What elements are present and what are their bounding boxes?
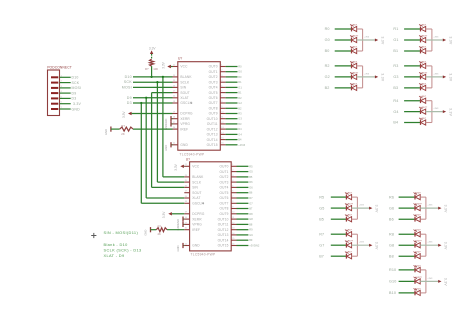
svg-text:TLC5940-PWP: TLC5940-PWP (191, 253, 216, 257)
svg-text:3.3V: 3.3V (375, 205, 379, 213)
svg-text:3.3V: 3.3V (174, 163, 178, 170)
svg-text:OUT3: OUT3 (219, 180, 228, 184)
svg-text:OUT10: OUT10 (218, 217, 229, 221)
svg-text:3.3V: 3.3V (73, 102, 81, 106)
svg-text:GND: GND (72, 107, 81, 111)
svg-text:MOSI: MOSI (122, 85, 132, 89)
svg-text:B5: B5 (319, 217, 324, 221)
svg-text:OUT5: OUT5 (209, 91, 218, 95)
svg-text:R?: R? (145, 67, 149, 71)
svg-text:G2: G2 (325, 75, 330, 79)
svg-text:G5: G5 (319, 206, 324, 210)
svg-text:LED?: LED? (352, 61, 358, 63)
svg-text:D3: D3 (127, 101, 132, 105)
svg-text:B8: B8 (389, 254, 394, 258)
svg-text:LED?: LED? (415, 215, 421, 217)
svg-text:LED??: LED?? (415, 277, 422, 279)
svg-text:3.3V: 3.3V (375, 242, 379, 250)
svg-text:PODCONNECT: PODCONNECT (47, 66, 72, 70)
svg-text:XLAT: XLAT (192, 196, 200, 200)
svg-text:+3V3: +3V3 (427, 242, 433, 244)
svg-text:LED?: LED? (421, 61, 427, 63)
svg-text:R10: R10 (389, 268, 396, 272)
svg-text:2K: 2K (158, 232, 162, 236)
svg-text:SIN: SIN (192, 186, 198, 190)
svg-text:LED?: LED? (421, 24, 427, 26)
svg-text:D3: D3 (72, 97, 77, 101)
svg-text:3.3V: 3.3V (448, 108, 452, 116)
svg-text:OUT1: OUT1 (219, 170, 228, 174)
svg-text:R8: R8 (389, 232, 394, 236)
svg-text:OUT6: OUT6 (209, 96, 218, 100)
svg-text:D10: D10 (72, 76, 79, 80)
svg-text:LED??: LED?? (352, 72, 359, 74)
svg-text:LED?: LED? (421, 118, 427, 120)
svg-text:DCPRG: DCPRG (192, 212, 205, 216)
svg-text:MOSI: MOSI (72, 86, 82, 90)
svg-text:OUT12: OUT12 (218, 228, 229, 232)
svg-text:3.3V: 3.3V (122, 111, 126, 118)
svg-text:OUT14: OUT14 (207, 138, 218, 142)
svg-text:IREF: IREF (180, 127, 188, 131)
svg-text:B10: B10 (389, 291, 396, 295)
svg-text:LED??: LED?? (347, 204, 354, 206)
svg-text:BLANK: BLANK (192, 175, 204, 179)
svg-text:LED?: LED? (421, 46, 427, 48)
svg-text:LED?: LED? (421, 96, 427, 98)
svg-text:LED??: LED?? (347, 241, 354, 243)
svg-text:+3V3: +3V3 (359, 205, 365, 207)
svg-text:LED?: LED? (421, 83, 427, 85)
svg-text:U?: U? (186, 157, 190, 161)
svg-text:DCPRG: DCPRG (180, 112, 193, 116)
svg-text:Blank - D10: Blank - D10 (104, 242, 129, 247)
svg-text:OUT13: OUT13 (218, 233, 229, 237)
svg-text:OUT2: OUT2 (209, 75, 218, 79)
svg-text:R3: R3 (393, 64, 398, 68)
svg-text:3.3V: 3.3V (444, 205, 448, 213)
svg-text:VCC: VCC (192, 165, 200, 169)
svg-text:R4: R4 (393, 99, 398, 103)
svg-text:3.3V: 3.3V (380, 73, 384, 81)
svg-text:OUT12: OUT12 (207, 127, 218, 131)
svg-text:OUT6: OUT6 (219, 196, 228, 200)
svg-text:3.3V: 3.3V (448, 37, 452, 45)
svg-text:OUT1: OUT1 (209, 70, 218, 74)
svg-text:LED?: LED? (415, 230, 421, 232)
svg-text:SOUT: SOUT (192, 191, 201, 195)
svg-text:R?: R? (121, 124, 125, 128)
svg-text:2K: 2K (121, 132, 125, 136)
svg-text:3.3V: 3.3V (162, 211, 166, 218)
svg-text:LED?: LED? (347, 252, 353, 254)
svg-text:OUT5: OUT5 (219, 191, 228, 195)
svg-text:+3V3: +3V3 (359, 242, 365, 244)
svg-text:3.3V: 3.3V (380, 37, 384, 45)
svg-text:SCK: SCK (124, 80, 132, 84)
svg-text:+3V3: +3V3 (433, 73, 439, 75)
svg-text:LED?: LED? (347, 215, 353, 217)
svg-text:OUT13: OUT13 (207, 133, 218, 137)
svg-text:R5: R5 (319, 195, 324, 199)
svg-text:SCLK (SCK) - D13: SCLK (SCK) - D13 (104, 248, 142, 253)
svg-text:OUT9: OUT9 (209, 112, 218, 116)
svg-text:B1: B1 (393, 49, 398, 53)
svg-text:3.3V: 3.3V (149, 46, 156, 50)
svg-text:LED?: LED? (352, 46, 358, 48)
svg-text:LED?: LED? (415, 252, 421, 254)
svg-text:B4: B4 (393, 121, 398, 125)
svg-text:3.3V: 3.3V (162, 61, 166, 68)
svg-text:SOUT: SOUT (180, 91, 189, 95)
svg-text:LED??: LED?? (421, 107, 428, 109)
svg-text:LED?: LED? (352, 83, 358, 85)
svg-text:R0: R0 (325, 27, 330, 31)
svg-text:GND: GND (192, 244, 200, 248)
svg-text:VCC: VCC (180, 65, 188, 69)
svg-text:LED?: LED? (415, 288, 421, 290)
svg-text:OUT7: OUT7 (209, 101, 218, 105)
svg-text:B7: B7 (319, 254, 324, 258)
svg-text:+3V3: +3V3 (364, 36, 370, 38)
svg-text:XLAT: XLAT (180, 96, 188, 100)
svg-text:OUT4: OUT4 (219, 186, 228, 190)
svg-text:R?: R? (158, 224, 162, 228)
svg-text:+3V3: +3V3 (364, 73, 370, 75)
svg-text:U?: U? (178, 57, 182, 61)
svg-text:BLANK: BLANK (180, 75, 192, 79)
svg-text:G1: G1 (393, 38, 398, 42)
svg-text:LED?: LED? (347, 193, 353, 195)
svg-text:3.3V: 3.3V (444, 278, 448, 286)
svg-text:D9: D9 (127, 96, 132, 100)
svg-text:OUT2: OUT2 (219, 175, 228, 179)
svg-text:SCLK: SCLK (192, 180, 202, 184)
svg-text:OUT15: OUT15 (207, 143, 218, 147)
svg-text:VPRG: VPRG (180, 122, 190, 126)
svg-text:OUT0: OUT0 (209, 65, 218, 69)
svg-text:LED??: LED?? (415, 204, 422, 206)
svg-text:+3V3: +3V3 (433, 36, 439, 38)
svg-text:+3V3: +3V3 (433, 108, 439, 110)
svg-text:OUT7: OUT7 (219, 202, 228, 206)
svg-text:+3V3: +3V3 (427, 278, 433, 280)
svg-text:SCLK: SCLK (180, 80, 190, 84)
svg-text:G3: G3 (393, 75, 398, 79)
svg-text:GND: GND (180, 143, 188, 147)
svg-text:R1: R1 (393, 27, 398, 31)
svg-text:B2: B2 (325, 86, 330, 90)
svg-text:3.3V: 3.3V (444, 242, 448, 250)
svg-text:SCK: SCK (72, 81, 80, 85)
svg-text:B6: B6 (389, 217, 394, 221)
svg-text:XLAT - D9: XLAT - D9 (104, 253, 125, 258)
svg-text:LED??: LED?? (421, 35, 428, 37)
svg-text:SIN - MOSI(D11): SIN - MOSI(D11) (104, 230, 139, 235)
svg-text:OUT4: OUT4 (209, 86, 218, 90)
svg-text:OUT11: OUT11 (207, 122, 218, 126)
svg-text:10K: 10K (153, 67, 158, 71)
svg-text:IREF: IREF (192, 228, 200, 232)
svg-text:OUT11: OUT11 (218, 223, 229, 227)
svg-text:LED??: LED?? (415, 241, 422, 243)
svg-text:OUT3: OUT3 (209, 80, 218, 84)
svg-text:G10: G10 (389, 280, 396, 284)
svg-text:LED?: LED? (347, 230, 353, 232)
svg-text:B3: B3 (393, 86, 398, 90)
svg-text:OUT8: OUT8 (209, 107, 218, 111)
svg-text:OUT8: OUT8 (219, 207, 228, 211)
svg-text:TLC5940-PWP: TLC5940-PWP (180, 153, 205, 157)
svg-text:XERR: XERR (192, 217, 202, 221)
svg-text:R2: R2 (325, 64, 330, 68)
svg-text:G4: G4 (393, 110, 398, 114)
svg-text:3.3V: 3.3V (448, 73, 452, 81)
svg-text:G8: G8 (389, 243, 394, 247)
svg-text:LED?: LED? (415, 265, 421, 267)
svg-text:LED?: LED? (415, 193, 421, 195)
svg-text:G6: G6 (389, 206, 394, 210)
svg-text:OUT0: OUT0 (219, 165, 228, 169)
svg-text:SIN: SIN (180, 86, 186, 90)
svg-text:VPRG: VPRG (192, 223, 202, 227)
svg-text:OUT10: OUT10 (207, 117, 218, 121)
svg-text:LED?: LED? (352, 24, 358, 26)
svg-text:D10: D10 (125, 75, 132, 79)
svg-text:XERR: XERR (180, 117, 190, 121)
svg-text:G7: G7 (319, 243, 324, 247)
svg-text:OUT15: OUT15 (218, 244, 229, 248)
svg-text:D9: D9 (72, 91, 77, 95)
svg-text:LED??: LED?? (352, 35, 359, 37)
svg-text:R7: R7 (319, 232, 324, 236)
svg-text:G0: G0 (325, 38, 330, 42)
svg-text:OUT9: OUT9 (219, 212, 228, 216)
svg-text:R6: R6 (389, 195, 394, 199)
svg-text:LED??: LED?? (421, 72, 428, 74)
svg-text:B0: B0 (325, 49, 330, 53)
svg-text:+3V3: +3V3 (427, 205, 433, 207)
svg-text:OUT14: OUT14 (218, 238, 229, 242)
